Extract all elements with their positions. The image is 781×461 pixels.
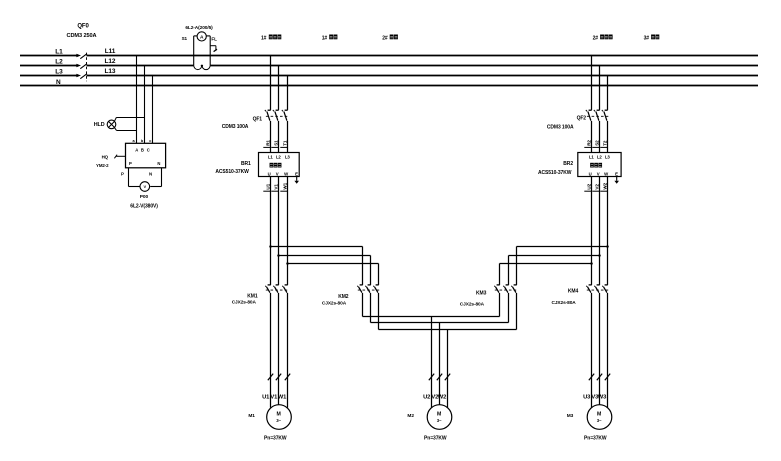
svg-text:L12: L12 (105, 58, 116, 65)
svg-text:3#: 3# (644, 35, 650, 41)
svg-text:W1: W1 (282, 182, 287, 189)
breaker QF2 pole 1 wire to box (591, 121, 593, 153)
wire KM2 pole 1 drop (362, 247, 364, 285)
svg-text:N: N (56, 79, 61, 86)
contactor KM2 pole 2 contact tick (368, 284, 371, 286)
breaker QF2 pole 1 contact tick (589, 109, 592, 111)
wire KM3 pole 3 down to lower bus (516, 293, 518, 330)
wire ammeter left stub (194, 35, 198, 37)
svg-text:M: M (276, 412, 280, 418)
BR1 chinese char2 (274, 163, 278, 168)
svg-text:HQ: HQ (102, 155, 109, 160)
BR2 chinese char3 (598, 163, 602, 168)
wire L1 bus before QF0 (20, 55, 77, 57)
wire lamp top diagonal (114, 117, 116, 121)
contactor KM1 pole 1 contact tick (268, 284, 271, 286)
svg-text:L3: L3 (285, 154, 291, 159)
svg-text:KM3: KM3 (476, 291, 487, 297)
svg-text:3~: 3~ (437, 418, 442, 423)
transfer switch box (126, 143, 166, 168)
contactor KM4 pole 3 blade (604, 287, 607, 293)
junction left branch 3 (286, 262, 289, 265)
svg-text:P: P (129, 161, 132, 166)
caption 1# inverter char2 (273, 35, 277, 40)
contactor KM1 pole 3 blade (284, 287, 287, 293)
breaker QF1 pole 3 blade (284, 112, 287, 121)
wire BR1 output 1 down to junction (270, 177, 272, 247)
svg-text:R2: R2 (586, 140, 591, 146)
svg-text:L3: L3 (55, 69, 63, 76)
svg-text:M1: M1 (248, 413, 255, 419)
BR2 chinese char2 (594, 163, 598, 168)
wire label below BR1 3 (282, 182, 287, 189)
svg-text:L2: L2 (276, 154, 282, 159)
breaker QF1 pole 3 contact tick (285, 109, 288, 111)
motor M3 wire slash at x=607.5 (605, 374, 610, 381)
breaker QF1 pole 2 blade (275, 112, 278, 121)
wire label above BR2 1 (586, 140, 591, 146)
wire CT left vertical (193, 36, 195, 65)
svg-text:U: U (268, 171, 271, 176)
svg-text:V: V (597, 171, 600, 176)
wire branch left 2 to KM2 (279, 255, 371, 257)
wire KM4 pole 1 to motor M3 (591, 293, 593, 408)
svg-text:L2: L2 (597, 154, 603, 159)
wire left feeder 3 to QF1 (287, 76, 289, 110)
CT humps junction dot (201, 65, 203, 67)
wire KM1 pole 3 feed (287, 264, 289, 285)
svg-text:W3: W3 (598, 394, 607, 400)
breaker QF2 linkage dashed line (587, 115, 609, 117)
breaker QF1 pole 2 wire to box (278, 121, 280, 153)
svg-text:V1: V1 (273, 184, 278, 190)
contactor KM1 pole 2 blade (275, 287, 278, 293)
breaker QF1 pole 2 contact tick (276, 109, 279, 111)
contactor KM4 pole 2 contact tick (597, 284, 600, 286)
breaker QF2 pole 3 wire to box (607, 121, 609, 153)
breaker QF2 pole 3 chevron (602, 110, 603, 111)
wire KM1 pole 1 feed (270, 247, 272, 285)
svg-text:U: U (589, 171, 592, 176)
wire label above BR2 3 (602, 140, 607, 146)
lamp HLD X diag1 (109, 121, 115, 127)
wire KM1 pole 3 to motor M1 (287, 293, 289, 408)
svg-text:QF2: QF2 (577, 115, 587, 121)
wire lamp bottom horizontal (116, 130, 136, 132)
BR2 earth pin wire (616, 177, 618, 181)
BR1 earth arrow (294, 181, 299, 184)
svg-text:2#: 2# (593, 35, 599, 41)
wire KM1 pole 2 to motor M1 (278, 293, 280, 405)
motor M1 wire slash at x=270.5 (268, 374, 273, 381)
wire branch left 3 to KM2 (288, 263, 379, 265)
wire KM3 pole 1 down to lower bus (499, 293, 501, 317)
wire KM3 pole 2 down to lower bus (508, 293, 510, 323)
svg-text:3~: 3~ (597, 418, 602, 423)
breaker QF1 pole 1 contact tick (268, 109, 271, 111)
contactor KM1 linkage dashed line (266, 289, 288, 291)
wire L2 bus before QF0 (20, 65, 77, 67)
wire HQ stub (116, 155, 125, 157)
breaker QF2 pole 2 blade (596, 112, 599, 121)
svg-text:L11: L11 (105, 48, 116, 55)
contactor KM2 pole 3 contact tick (376, 284, 379, 286)
caption 2# inverter char2 (604, 35, 608, 40)
svg-text:KM4: KM4 (568, 288, 579, 294)
junction right branch 1 (606, 245, 609, 248)
breaker QF2 pole 1 blade (588, 112, 591, 121)
wire ammeter right stub (206, 35, 210, 37)
wire to voltmeter right (150, 186, 161, 188)
contactor KM3 pole 3 blade (513, 287, 516, 293)
wire KM4 pole 2 to motor M3 (599, 293, 601, 405)
wire L12 bus right segment (210, 65, 758, 67)
svg-text:N: N (157, 161, 160, 166)
wire box left down (128, 168, 130, 187)
svg-text:QF1: QF1 (253, 117, 263, 123)
contactor KM4 pole 3 contact tick (605, 284, 608, 286)
wire lower bus 2 KM2 to KM3 (371, 322, 509, 324)
svg-text:E: E (615, 171, 618, 176)
wire meter tap c (152, 76, 154, 144)
svg-text:6L2-A(200/5): 6L2-A(200/5) (185, 25, 213, 31)
wire KM4 pole 1 feed (591, 264, 593, 285)
CT earth tick (214, 49, 217, 51)
wire branch right 1 to KM3 (517, 246, 608, 248)
contactor KM1 pole 3 chevron (282, 286, 283, 287)
svg-text:BR2: BR2 (563, 161, 573, 167)
svg-text:CJX2s-80A: CJX2s-80A (460, 301, 485, 307)
wire L12 bus left segment (87, 65, 194, 67)
wire meter tap b (144, 66, 146, 144)
svg-text:ACS510-37KW: ACS510-37KW (215, 169, 249, 175)
motor M1 wire slash at x=278.5 (276, 374, 281, 381)
svg-text:U2: U2 (586, 183, 591, 189)
svg-text:S1: S1 (182, 36, 188, 41)
motor M2 wire slash at x=431.5 (429, 374, 434, 381)
svg-text:Pn=37KW: Pn=37KW (424, 436, 447, 442)
svg-text:N: N (149, 171, 152, 176)
wire M2 drop 3 (447, 330, 449, 408)
svg-text:1#: 1# (322, 35, 328, 41)
wire KM4 pole 3 to motor M3 (607, 293, 609, 408)
wire right feeder 1 to QF2 (591, 56, 593, 110)
breaker QF2 pole 3 contact tick (605, 109, 608, 111)
wire label below BR1 1 (265, 183, 270, 189)
motor M1 circle (267, 405, 292, 430)
wire KM4 pole 2 feed (599, 256, 601, 285)
QF0 pole 3 arrow contact (76, 74, 81, 77)
contactor KM3 pole 2 blade (505, 287, 508, 293)
wire branch left 1 to KM2 (271, 246, 363, 248)
QF0 linkage dashed line (86, 53, 88, 82)
contactor KM3 pole 1 chevron (494, 286, 495, 287)
svg-text:U1: U1 (265, 183, 270, 189)
svg-text:FL: FL (211, 37, 217, 42)
breaker QF1 pole 1 blade (267, 112, 270, 121)
wire CT right vertical (209, 36, 211, 65)
wire CT earth stub vertical (215, 46, 217, 51)
svg-text:T1: T1 (282, 140, 287, 146)
junction left branch 2 (277, 254, 280, 257)
wire label above BR1 1 (265, 140, 270, 146)
svg-text:W2: W2 (438, 394, 447, 400)
breaker QF2 pole 3 blade (604, 112, 607, 121)
wire KM3 pole 3 drop (516, 247, 518, 285)
svg-text:E: E (295, 171, 298, 176)
QF0 pole 1 blade (80, 54, 87, 59)
inverter BR2 box (578, 153, 621, 177)
svg-text:L1: L1 (268, 154, 274, 159)
motor M3 wire slash at x=599.5 (597, 374, 602, 381)
svg-text:CDM3 250A: CDM3 250A (67, 33, 97, 39)
svg-text:T2: T2 (602, 140, 607, 146)
wire BR2 output 2 down to junction (599, 177, 601, 256)
svg-text:CDM3 100A: CDM3 100A (222, 124, 249, 130)
breaker QF1 pole 1 chevron (265, 110, 266, 111)
wire label below BR1 2 (273, 184, 278, 190)
caption 1# inverter char1 (269, 35, 273, 40)
caption 1# motor char1 (329, 35, 333, 40)
svg-text:V2: V2 (594, 184, 599, 190)
caption 2# motor char2 (394, 35, 398, 40)
svg-text:2#: 2# (382, 35, 388, 41)
junction right branch 2 (598, 254, 601, 257)
motor M3 circle (587, 405, 612, 430)
svg-text:V: V (144, 184, 147, 189)
svg-text:M: M (437, 412, 441, 418)
svg-text:A: A (135, 148, 138, 153)
wire label below BR2 1 (586, 183, 591, 189)
wire right feeder 3 to QF2 (607, 76, 609, 110)
wire KM3 pole 1 drop (499, 264, 501, 285)
wire lower bus 3 KM2 to KM3 (379, 329, 517, 331)
wire KM2 pole 3 down to lower bus (378, 293, 380, 330)
wire L11 bus after QF0 (87, 55, 759, 57)
svg-text:L3: L3 (605, 154, 611, 159)
contactor KM3 pole 3 chevron (511, 286, 512, 287)
breaker QF2 pole 2 chevron (594, 110, 595, 111)
breaker QF1 linkage dashed line (266, 115, 289, 117)
contactor KM4 pole 1 contact tick (589, 284, 592, 286)
svg-text:U2: U2 (423, 394, 430, 400)
wire BR2 output 1 down to junction (591, 177, 593, 264)
breaker QF1 pole 3 wire to box (287, 121, 289, 153)
caption 2# inverter char1 (600, 35, 604, 40)
caption 1# motor char2 (334, 35, 338, 40)
svg-text:C: C (147, 148, 150, 153)
wire label below BR2 2 (594, 184, 599, 190)
wire left feeder 1 to QF1 (270, 56, 272, 110)
contactor KM4 pole 1 chevron (586, 286, 587, 287)
BR2 earth arrow (614, 181, 619, 184)
wire branch right 3 to KM3 (500, 263, 592, 265)
breaker QF2 pole 2 wire to box (599, 121, 601, 153)
contactor KM1 pole 2 chevron (273, 286, 274, 287)
contactor KM2 linkage dashed line (358, 289, 379, 291)
contactor KM4 linkage dashed line (587, 289, 608, 291)
motor M3 wire slash at x=591.5 (589, 374, 594, 381)
caption 2# inverter char3 (609, 35, 613, 40)
wire label above BR1 2 (273, 140, 278, 146)
junction right branch 3 (590, 262, 593, 265)
ammeter PA circle (197, 32, 206, 41)
svg-text:HLD: HLD (94, 122, 105, 128)
wire BR2 output 3 down to junction (607, 177, 609, 247)
wire right feeder 2 to QF2 (599, 66, 601, 110)
svg-text:CJX2s-80A: CJX2s-80A (322, 300, 347, 306)
wire meter tap a (136, 56, 138, 144)
svg-text:Pn=37KW: Pn=37KW (264, 436, 287, 442)
contactor KM2 pole 3 chevron (373, 286, 374, 287)
contactor KM2 pole 2 blade (367, 287, 370, 293)
svg-text:S2: S2 (594, 140, 599, 146)
contactor KM3 pole 2 chevron (503, 286, 504, 287)
QF0 pole 3 blade (80, 74, 87, 79)
svg-text:V: V (276, 171, 279, 176)
svg-text:M3: M3 (567, 413, 574, 419)
CT hump right (202, 65, 210, 69)
QF0 pole 1 arrow contact (76, 54, 81, 57)
svg-text:ACS510-37KW: ACS510-37KW (538, 170, 572, 176)
wire label above BR1 3 (282, 140, 287, 146)
svg-text:L13: L13 (105, 68, 116, 75)
QF0 pole 2 arrow contact (76, 64, 81, 67)
motor M1 wire slash at x=287.5 (285, 374, 290, 381)
wire KM1 pole 2 feed (278, 256, 280, 285)
wire L3 bus before QF0 (20, 75, 77, 77)
contactor KM2 pole 1 contact tick (360, 284, 363, 286)
contactor KM2 pole 3 blade (375, 287, 378, 293)
svg-text:KM2: KM2 (338, 294, 349, 300)
svg-text:R1: R1 (265, 140, 270, 146)
svg-text:P: P (121, 171, 124, 176)
junction left branch 1 (269, 245, 272, 248)
wire lamp bottom diagonal (114, 127, 116, 130)
svg-text:P00: P00 (140, 194, 149, 200)
svg-text:3~: 3~ (276, 418, 281, 423)
wire label below BR2 3 (602, 182, 607, 189)
wire KM2 pole 2 down to lower bus (370, 293, 372, 323)
breaker QF1 pole 2 chevron (273, 110, 274, 111)
contactor KM1 pole 3 contact tick (285, 284, 288, 286)
wire lower bus 1 KM2 to KM3 (363, 316, 500, 318)
contactor KM1 pole 1 blade (267, 287, 270, 293)
wire box right down (161, 168, 163, 187)
caption 1# inverter char3 (277, 35, 281, 40)
wire CT earth stub horizontal (210, 45, 216, 47)
wire KM2 pole 1 down to lower bus (362, 293, 364, 317)
inverter BR1 box (259, 153, 300, 177)
wire BR1 output 3 down to junction (287, 177, 289, 264)
svg-text:W2: W2 (602, 182, 607, 189)
contactor KM4 pole 3 chevron (602, 286, 603, 287)
svg-text:M2: M2 (407, 413, 414, 419)
caption 3# motor char1 (651, 35, 655, 40)
wire KM1 pole 1 to motor M1 (270, 293, 272, 408)
CT hump left (194, 65, 202, 69)
svg-text:CJX2s-80A: CJX2s-80A (552, 300, 577, 306)
lamp HLD X diag2 (109, 121, 115, 127)
voltmeter P00 circle (140, 182, 150, 192)
svg-text:L1: L1 (589, 154, 595, 159)
wire KM3 pole 2 drop (508, 256, 510, 285)
svg-text:M: M (597, 412, 601, 418)
contactor KM4 pole 1 blade (588, 287, 591, 293)
svg-text:W1: W1 (278, 394, 287, 400)
BR1 chinese char1 (270, 163, 274, 168)
svg-text:6L2-V(380V): 6L2-V(380V) (130, 204, 158, 210)
contactor KM1 pole 2 contact tick (276, 284, 279, 286)
svg-text:1#: 1# (261, 35, 267, 41)
svg-text:YM2-2: YM2-2 (96, 163, 109, 168)
contactor KM4 pole 2 blade (596, 287, 599, 293)
svg-text:CDM3 100A: CDM3 100A (547, 124, 574, 130)
contactor KM2 pole 1 blade (359, 287, 362, 293)
wire lamp top horizontal (116, 117, 144, 119)
motor M2 wire slash at x=447.5 (445, 374, 450, 381)
contactor KM3 pole 1 contact tick (497, 284, 500, 286)
wire N bus (20, 85, 758, 87)
svg-text:CJX2s-80A: CJX2s-80A (232, 300, 257, 306)
motor M2 wire slash at x=439.5 (437, 374, 442, 381)
contactor KM1 pole 1 chevron (265, 286, 266, 287)
contactor KM2 pole 2 chevron (365, 286, 366, 287)
wire M2 drop 2 (439, 323, 441, 405)
wire BR1 output 2 down to junction (278, 177, 280, 256)
breaker QF1 pole 3 chevron (282, 110, 283, 111)
contactor KM4 pole 2 chevron (594, 286, 595, 287)
svg-text:KM1: KM1 (247, 294, 258, 300)
caption 3# motor char2 (655, 35, 659, 40)
svg-text:L1: L1 (55, 49, 63, 56)
QF0 pole 2 blade (80, 64, 87, 69)
svg-text:Pn=37KW: Pn=37KW (584, 436, 607, 442)
wire KM2 pole 3 drop (378, 264, 380, 285)
wire L13 bus after QF0 (87, 75, 759, 77)
contactor KM3 pole 3 contact tick (514, 284, 517, 286)
wire branch right 2 to KM3 (509, 255, 600, 257)
svg-text:U3: U3 (583, 394, 591, 400)
motor M2 circle (427, 405, 452, 430)
svg-text:B: B (141, 148, 144, 153)
HQ stub tick (114, 155, 117, 159)
wire KM2 pole 2 drop (370, 256, 372, 285)
wire left feeder 2 to QF1 (278, 66, 280, 110)
contactor KM3 linkage dashed line (495, 289, 517, 291)
svg-text:L2: L2 (55, 59, 63, 66)
caption 2# motor char1 (390, 35, 394, 40)
lamp HLD circle (107, 120, 116, 129)
svg-text:S1: S1 (273, 140, 278, 146)
svg-text:QF0: QF0 (77, 24, 89, 30)
contactor KM3 pole 2 contact tick (506, 284, 509, 286)
breaker QF2 pole 1 chevron (586, 110, 587, 111)
contactor KM3 pole 1 blade (496, 287, 499, 293)
BR1 chinese char3 (278, 163, 282, 168)
svg-text:U1: U1 (262, 394, 270, 400)
contactor KM2 pole 1 chevron (357, 286, 358, 287)
BR2 chinese char1 (590, 163, 594, 168)
wire label above BR2 2 (594, 140, 599, 146)
BR1 earth pin wire (296, 177, 298, 181)
wire to voltmeter left (129, 186, 141, 188)
breaker QF2 pole 2 contact tick (597, 109, 600, 111)
wire KM4 pole 3 feed (607, 247, 609, 285)
wire M2 drop 1 (431, 317, 433, 408)
svg-text:BR1: BR1 (241, 161, 251, 167)
breaker QF1 pole 1 wire to box (270, 121, 272, 153)
